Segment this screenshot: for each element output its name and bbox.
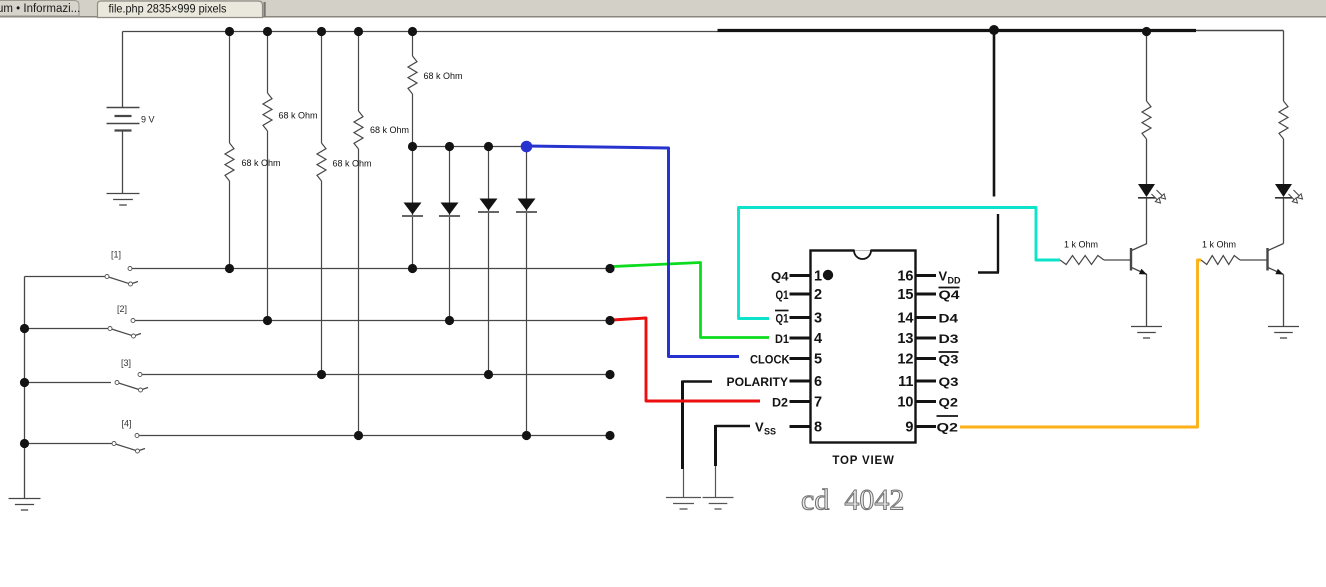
svg-text:3: 3	[814, 311, 822, 327]
svg-text:Q4: Q4	[939, 288, 960, 302]
svg-text:[4]: [4]	[122, 419, 132, 429]
svg-text:6: 6	[814, 374, 822, 390]
svg-text:file.php 2835×999 pixels: file.php 2835×999 pixels	[109, 2, 227, 16]
svg-text:9: 9	[905, 420, 913, 436]
svg-text:68 k Ohm: 68 k Ohm	[424, 71, 463, 81]
svg-text:DD: DD	[948, 276, 961, 286]
svg-text:10: 10	[897, 395, 913, 411]
svg-text:TOP VIEW: TOP VIEW	[832, 455, 894, 467]
svg-text:16: 16	[897, 269, 913, 285]
svg-text:[3]: [3]	[121, 358, 131, 368]
svg-text:4: 4	[814, 331, 822, 347]
svg-text:2: 2	[814, 287, 822, 303]
svg-text:Q3: Q3	[939, 375, 959, 389]
svg-text:Q2: Q2	[939, 396, 959, 410]
svg-text:Q1: Q1	[776, 312, 789, 326]
svg-text:9 V: 9 V	[141, 115, 155, 125]
svg-text:POLARITY: POLARITY	[727, 375, 789, 389]
svg-text:8: 8	[814, 420, 822, 436]
svg-text:V: V	[755, 420, 764, 435]
svg-text:[1]: [1]	[111, 250, 121, 260]
svg-text:Q2: Q2	[937, 421, 959, 435]
svg-text:D3: D3	[939, 332, 959, 346]
svg-text:Q4: Q4	[771, 270, 789, 284]
svg-text:CLOCK: CLOCK	[750, 353, 790, 367]
svg-text:11: 11	[898, 374, 913, 390]
svg-text:1 k Ohm: 1 k Ohm	[1064, 240, 1098, 250]
svg-text:V: V	[939, 269, 948, 284]
svg-text:SS: SS	[764, 427, 776, 437]
svg-text:[2]: [2]	[117, 304, 127, 314]
svg-text:cd 4042: cd 4042	[801, 484, 904, 517]
svg-text:5: 5	[814, 352, 822, 368]
svg-text:7: 7	[814, 395, 822, 411]
svg-text:D4: D4	[939, 312, 959, 326]
svg-text:68 k Ohm: 68 k Ohm	[370, 125, 409, 135]
svg-text:D2: D2	[772, 396, 788, 410]
svg-text:Q3: Q3	[939, 353, 959, 367]
svg-text:1: 1	[814, 269, 822, 285]
svg-text:68 k Ohm: 68 k Ohm	[279, 111, 318, 121]
svg-text:D1: D1	[775, 332, 789, 346]
svg-text:um • Informazi...: um • Informazi...	[0, 3, 80, 15]
svg-text:68 k Ohm: 68 k Ohm	[333, 159, 372, 169]
svg-text:Q1: Q1	[776, 288, 789, 302]
svg-text:68 k Ohm: 68 k Ohm	[242, 158, 281, 168]
svg-text:13: 13	[897, 331, 913, 347]
svg-text:15: 15	[897, 287, 913, 303]
svg-text:1 k Ohm: 1 k Ohm	[1202, 240, 1236, 250]
svg-text:12: 12	[897, 352, 913, 368]
svg-text:14: 14	[897, 311, 913, 327]
